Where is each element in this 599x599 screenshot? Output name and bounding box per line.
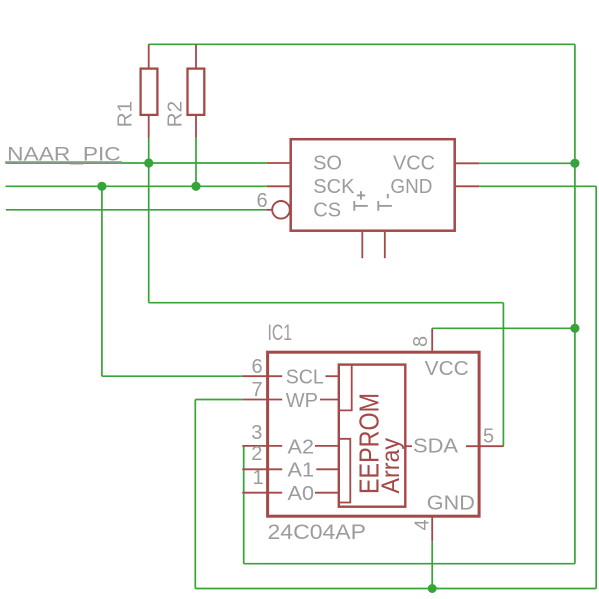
svg-text:A2: A2: [288, 436, 315, 458]
IC1 pin 4 GND vertical: [431, 516, 433, 541]
wire net GND from top IC to right edge: [479, 185, 596, 187]
wire internal dash WP: [320, 399, 339, 401]
IC1 pin 6 SCL: [242, 375, 282, 377]
svg-text:VCC: VCC: [393, 153, 435, 175]
svg-text:1: 1: [253, 467, 264, 489]
junction node VCC top IC: [570, 159, 579, 168]
wire net GND bottom horizontal: [195, 588, 596, 590]
svg-text:24C04AP: 24C04AP: [268, 521, 367, 544]
wire net GND pin4 vertical: [431, 541, 433, 588]
svg-text:A1: A1: [288, 460, 315, 482]
IC1 pin 8 VCC vertical: [431, 328, 433, 351]
svg-text:4: 4: [412, 519, 434, 530]
svg-text:SDA: SDA: [413, 435, 459, 457]
IC U1 bottom pin 2: [384, 232, 386, 258]
svg-text:6: 6: [257, 190, 268, 212]
svg-text:VCC: VCC: [425, 358, 469, 380]
IC U1 pin SO: [267, 162, 291, 164]
IC U1 top box: [291, 139, 455, 231]
wire net GND left vertical to WP: [194, 400, 196, 589]
symbol plus mark inside IC U1: [357, 191, 365, 199]
resistor R2 body: [188, 69, 205, 115]
junction node GND IC1 pin4: [428, 584, 437, 593]
svg-text:SCK: SCK: [313, 176, 355, 198]
wire net SCK R2 stub: [195, 138, 197, 187]
wire net GND right vertical: [595, 186, 597, 588]
resistor R1 pin top: [148, 44, 150, 68]
label NAAR_PIC underline: [5, 161, 122, 163]
IC1 pin 3 A2: [242, 445, 282, 447]
svg-text:8: 8: [410, 336, 432, 347]
wire net NAAR_PIC R1 drop: [148, 138, 150, 303]
wire internal dash SCL: [326, 375, 339, 377]
wire net VCC left vertical to A2 A1 A0 pins: [243, 446, 245, 564]
wire net VCC from IC1 pin 8: [432, 327, 575, 329]
IC1 pin 7 WP: [242, 399, 282, 401]
IC U1 pin CS stub: [266, 209, 272, 211]
IC1 pin 1 A0: [242, 492, 282, 494]
svg-text:R2: R2: [165, 101, 187, 128]
svg-text:IC1: IC1: [268, 320, 293, 345]
IC U1 pin VCC: [456, 162, 480, 164]
svg-text:7: 7: [252, 379, 263, 401]
wire net VCC bottom horizontal: [244, 563, 575, 565]
junction node SCK branch: [97, 182, 106, 191]
svg-text:2: 2: [251, 443, 262, 465]
wire net NAAR_PIC vertical to SDA pin: [502, 303, 504, 447]
IC U1 pin CS bubble: [272, 201, 290, 219]
svg-text:SCL: SCL: [286, 367, 324, 389]
svg-text:3: 3: [251, 422, 262, 444]
svg-text:GND: GND: [390, 176, 432, 198]
wire net GND horizontal to WP pin: [195, 399, 242, 401]
IC1 pin 5 SDA: [466, 445, 504, 447]
svg-text:Array: Array: [377, 438, 405, 494]
svg-text:SO: SO: [313, 153, 342, 175]
wire internal dash A0: [315, 492, 339, 494]
symbol battery tick 1 inside IC U1: [354, 201, 368, 211]
resistor R2 pin top: [195, 44, 197, 68]
wire internal dash A2: [315, 445, 339, 447]
IC IC1 box: [268, 352, 480, 516]
resistor R1 body: [141, 69, 158, 115]
svg-text:GND: GND: [427, 492, 475, 514]
svg-text:CS: CS: [313, 199, 341, 221]
IC1 pin 2 A1: [242, 468, 282, 470]
wire net CS horizontal: [6, 209, 267, 211]
svg-text:R1: R1: [115, 101, 137, 128]
EEPROM array block outline: [339, 365, 406, 507]
wire internal dash SDA: [407, 445, 413, 447]
svg-text:WP: WP: [286, 390, 318, 412]
wire internal dash A1: [316, 468, 339, 470]
wire net NAAR_PIC horizontal to SDA column: [149, 302, 504, 304]
wire net SCK vertical branch to SCL: [101, 186, 103, 376]
wire net SCK horizontal to SCL pin: [102, 375, 242, 377]
svg-text:6: 6: [252, 356, 263, 378]
resistor R2 pin bottom: [195, 115, 197, 138]
wire net SCK horizontal: [6, 185, 267, 187]
wire net VCC top horizontal: [149, 43, 575, 45]
junction node SCK R2: [191, 182, 200, 191]
IC U1 pin GND: [456, 185, 480, 187]
EEPROM address notch lower: [339, 439, 351, 503]
svg-text:5: 5: [483, 426, 494, 448]
junction node VCC IC1 pin8: [570, 324, 579, 333]
wire net NAAR_PIC horizontal: [6, 162, 267, 164]
IC U1 bottom pin 1: [361, 232, 363, 258]
wire net VCC from top IC VCC pin: [479, 162, 575, 164]
wire net VCC right vertical: [574, 44, 576, 563]
junction node NAAR_PIC R1: [144, 158, 153, 167]
svg-text:A0: A0: [288, 483, 315, 505]
EEPROM control notch upper: [339, 365, 352, 411]
symbol battery tick 2 inside IC U1: [378, 194, 392, 211]
IC U1 pin SCK: [267, 185, 291, 187]
resistor R1 pin bottom: [148, 115, 150, 138]
